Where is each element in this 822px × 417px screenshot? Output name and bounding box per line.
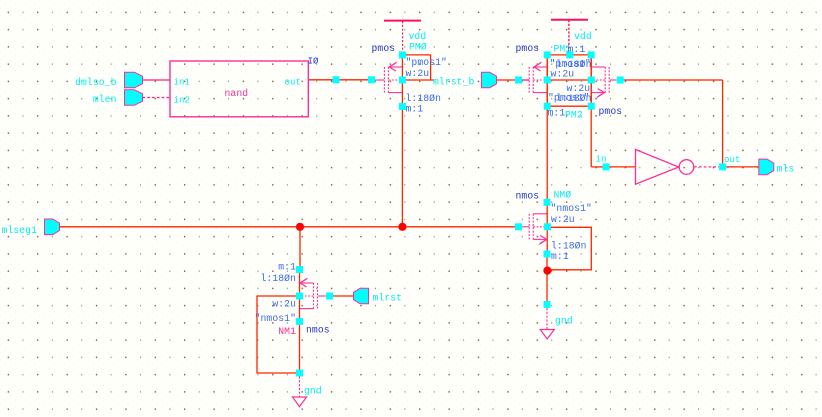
svg-text:PM2: PM2 — [565, 110, 583, 121]
nand gate pin label in2 — [174, 96, 191, 106]
junction dot on mlseg1 at NM1 branch — [296, 223, 304, 231]
nand gate I0 instance label — [308, 57, 320, 67]
svg-text:w:2u: w:2u — [551, 69, 575, 80]
vdd label PM0 — [409, 31, 427, 42]
svg-text:l:18Øn: l:18Øn — [556, 93, 591, 104]
wire nand input in2 from pin mlen (dashed) — [143, 97, 171, 99]
transistor NM1 symbol (nmos, mirrored) — [300, 271, 318, 322]
wire PM1 axis vertical segments — [546, 57, 548, 104]
svg-text:m:1: m:1 — [548, 108, 566, 119]
svg-text:pmos: pmos — [599, 106, 623, 117]
svg-text:out: out — [284, 78, 301, 88]
vdd label PM1/PM2 — [574, 31, 592, 42]
svg-text:out: out — [724, 155, 741, 165]
svg-text:w:2u: w:2u — [567, 83, 591, 94]
input pin dmlso_b — [125, 72, 143, 88]
inverter triangle — [636, 150, 679, 185]
nand gate pin label out — [284, 78, 301, 88]
vdd symbol above PM1/PM2 — [551, 20, 588, 52]
svg-text:in1: in1 — [174, 78, 191, 88]
svg-text:w:2u: w:2u — [551, 214, 575, 225]
svg-text:in2: in2 — [174, 96, 191, 106]
svg-text:l:18Øn: l:18Øn — [406, 93, 441, 104]
transistor PM2 symbol (pmos, mirrored) — [591, 55, 609, 106]
transistor PM0 symbol (pmos) — [384, 55, 402, 106]
svg-text:vdd: vdd — [574, 31, 592, 42]
ground symbol below NM1 — [293, 377, 307, 407]
pin label mlrst — [373, 293, 403, 304]
PM0 labels — [372, 42, 447, 115]
nand gate name label — [225, 88, 249, 99]
PM2 labels — [548, 83, 623, 121]
svg-text:nmos: nmos — [306, 325, 330, 336]
output pin mls — [759, 159, 774, 175]
transistor PM1 symbol (pmos) — [529, 55, 547, 106]
junction dot at NM0 source/bulk tie — [543, 267, 551, 275]
svg-text:vdd: vdd — [409, 31, 427, 42]
NM0 gate stub — [522, 226, 529, 228]
svg-text:m:1: m:1 — [551, 251, 569, 262]
input pin mlrst — [354, 288, 369, 304]
svg-text:pmos: pmos — [516, 43, 540, 54]
wire mlrst_b pin to PM1 gate — [496, 79, 529, 81]
wire net mlseg1 horizontal — [60, 226, 516, 228]
wire PM0 bulk-source tie loop — [402, 55, 430, 80]
svg-text:m:1: m:1 — [278, 262, 296, 273]
wire PM1/PM2 drain rail (bottom) — [547, 105, 591, 107]
wire inverter out to pin mls — [726, 166, 759, 168]
net label mlrst_b — [433, 77, 474, 88]
svg-text:NMØ: NMØ — [554, 190, 572, 201]
wire NM1 gate to pin mlrst — [333, 295, 354, 297]
NM0 labels — [516, 190, 592, 263]
pin label dmlso_b — [75, 77, 116, 88]
pin label mlen — [93, 94, 117, 105]
svg-text:mlrst: mlrst — [373, 293, 403, 304]
svg-text:"pmos1": "pmos1" — [406, 57, 447, 68]
wire PM1/PM2 bulk rail (middle) — [547, 79, 591, 81]
wire PM0 bulk to net mlrst_b label — [406, 79, 434, 81]
wire NM1 source to gnd — [299, 325, 301, 370]
NM1 labels — [255, 262, 330, 338]
svg-text:IØ: IØ — [308, 57, 320, 67]
NM1 terminal squares — [296, 266, 333, 325]
PM1 terminal squares — [515, 51, 551, 109]
NM0 gnd connection square — [544, 301, 551, 308]
wire PM2 axis vertical segments — [590, 57, 592, 104]
nand gate I0 body — [170, 61, 308, 117]
svg-text:m:1: m:1 — [406, 104, 424, 115]
wire mlseg1 branch down to NM1 drain — [299, 227, 301, 266]
wire nand out to PM0 gate — [308, 79, 368, 81]
pin label mls — [777, 164, 795, 175]
wire NM0 bulk-source tie loop — [548, 227, 592, 269]
svg-text:w:2u: w:2u — [406, 68, 430, 79]
wire PM1/PM2 source rail (top) — [547, 54, 591, 56]
svg-text:PMØ: PMØ — [409, 42, 427, 53]
PM2 gate stub — [610, 79, 617, 81]
inverter pin label out — [724, 155, 741, 165]
vdd symbol above PM0 — [384, 21, 421, 52]
svg-text:dmlso_b: dmlso_b — [75, 77, 116, 88]
pin label mlseg1 — [2, 225, 38, 236]
svg-text:"nmos1": "nmos1" — [255, 313, 296, 324]
inverter pin label in — [596, 155, 607, 165]
svg-text:"nmos1": "nmos1" — [551, 203, 592, 214]
ground symbol below NM0 — [540, 308, 554, 339]
svg-text:mlrst_b: mlrst_b — [433, 77, 474, 88]
gnd label NM1 — [304, 386, 322, 397]
gnd label NM0 — [555, 316, 573, 327]
PM1 gate stub — [522, 79, 529, 81]
svg-text:nmos: nmos — [516, 191, 540, 202]
junction dot on mlseg1 at PM0 drain branch — [398, 223, 406, 231]
PM0 terminal squares — [333, 52, 406, 111]
inverter terminal squares — [603, 163, 727, 170]
svg-text:mlseg1: mlseg1 — [2, 225, 38, 236]
wire inverter output segment (dashed pink) — [694, 166, 719, 168]
wire PM0 drain down to mlseg1 wire — [401, 110, 403, 227]
output pin mlrst_b — [482, 72, 497, 88]
wire NM1 bulk-source tie loop — [257, 296, 300, 373]
wire PM1 drain to NM0 drain — [546, 110, 548, 200]
input pin mlen — [125, 90, 143, 106]
svg-text:gnd: gnd — [304, 386, 322, 397]
svg-text:nand: nand — [225, 88, 249, 99]
nand gate pin label in1 — [174, 78, 191, 88]
NM0 terminal squares — [515, 199, 551, 258]
wire inverter input segment — [610, 166, 636, 168]
wire nand input in1 from pin dmlso_b — [143, 79, 171, 81]
PM2 terminal squares — [566, 51, 623, 109]
svg-text:l:18Øn: l:18Øn — [551, 241, 586, 252]
svg-text:mlen: mlen — [93, 94, 117, 105]
svg-text:w:2u: w:2u — [272, 299, 296, 310]
svg-text:pmos: pmos — [372, 43, 396, 54]
inverter bubble — [679, 160, 694, 175]
PM1 labels — [516, 43, 592, 80]
svg-text:gnd: gnd — [555, 316, 573, 327]
NM1 gate stub — [318, 295, 326, 297]
input pin mlseg1 — [45, 219, 60, 235]
PM0 gate stub — [375, 79, 385, 81]
wire PM2 drain to inverter input — [591, 110, 602, 167]
svg-text:l:18Øn: l:18Øn — [261, 273, 296, 284]
transistor NM0 symbol (nmos) — [529, 202, 547, 253]
wire PM2 gate to inverter output feedback — [624, 80, 723, 164]
NM1 gnd connection square — [296, 370, 303, 377]
svg-text:in: in — [596, 155, 607, 165]
svg-text:NM1: NM1 — [278, 326, 296, 337]
wire NM0 source to gnd — [546, 258, 548, 302]
svg-text:mls: mls — [777, 164, 795, 175]
